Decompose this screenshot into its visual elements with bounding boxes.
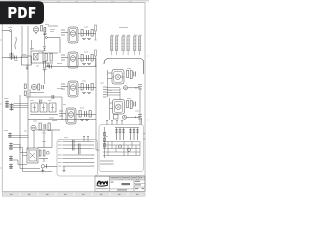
wire bias rail 2 (103, 144, 140, 146)
title block logo cell (109, 176, 111, 191)
power tube V6 (110, 35, 118, 55)
wire right bus (139, 88, 141, 126)
filter cap C24 (136, 129, 138, 140)
resistor R5 (81, 30, 83, 37)
label bottom row text (117, 189, 127, 190)
ground GND7 (41, 168, 44, 173)
wire heater rail 2 (63, 144, 95, 146)
resistor R12 (89, 111, 91, 118)
transistor Q2 (127, 148, 130, 151)
title block top row (110, 179, 146, 181)
label rail names left (58, 141, 62, 166)
wire loop net 1 (20, 145, 40, 169)
title block bottom row (110, 188, 135, 190)
capacitor C9 (134, 72, 136, 77)
wire bus x28 (27, 26, 29, 150)
capacitor C17 (78, 144, 80, 155)
input jack J1 (10, 30, 12, 32)
connector P5 pins (103, 87, 120, 97)
node N2 (45, 37, 47, 39)
triode V4 (70, 85, 76, 91)
mains jack J3 (41, 165, 44, 168)
triode V1b node (43, 70, 47, 73)
resistor R11 (79, 111, 81, 118)
resistor R1 (41, 26, 43, 32)
left margin zone ticks (0, 40, 1, 168)
wire bias rail 3 (103, 148, 140, 150)
ground GND3 (82, 64, 91, 65)
filter cap C22 (129, 129, 131, 140)
wire stage drops (34, 130, 52, 148)
resistor R2 (45, 54, 47, 62)
tube shield V4 (68, 81, 78, 97)
power tube V7 (122, 35, 130, 55)
wire stage net (26, 89, 62, 97)
label output tubes (119, 27, 128, 29)
wire R4 drop (44, 73, 46, 85)
pilot lamp DS1 (123, 115, 127, 119)
label FX (57, 88, 63, 90)
label smudges value texts (4, 25, 139, 138)
resistor R19 (39, 123, 41, 130)
resistor R17b (24, 91, 26, 96)
triode V2 (70, 31, 76, 37)
connector P2 pins (61, 55, 65, 60)
junction box B1 (57, 140, 98, 177)
wire V2 plate (78, 33, 96, 35)
speaker jack J2 (123, 86, 127, 90)
label right cells (135, 181, 144, 189)
fuse F1 (138, 115, 142, 120)
bottom ruler strip (2, 193, 145, 197)
wire tone net (30, 114, 58, 116)
wire V5 plate (76, 114, 96, 116)
wire P3 to V4 (65, 86, 68, 88)
dropper chain R24 (104, 127, 106, 158)
capacitor C8 (85, 111, 87, 117)
resistor R27 (103, 144, 105, 148)
label field texts top row (110, 177, 144, 178)
capacitor C6 (87, 55, 89, 61)
ground GND5 (80, 120, 89, 121)
wire heater rail 7 (63, 165, 95, 167)
label bias note 1 (100, 160, 114, 162)
triode V5 (68, 112, 74, 118)
wire bias rail 5 (103, 155, 140, 157)
wire bus x20 (19, 95, 21, 150)
wire P2 to V3 (65, 57, 68, 59)
wire V4 plate (78, 87, 96, 89)
label net name (57, 63, 62, 65)
capacitor C5 (87, 30, 89, 36)
wire PT secondary stubs (106, 121, 123, 125)
capacitor C4 (50, 65, 52, 69)
resistor R15b (130, 71, 132, 79)
wire V3 plate (78, 58, 96, 60)
power tube V8 (134, 35, 142, 55)
pot VR3 (40, 103, 47, 112)
tube shield V10 (113, 100, 125, 115)
wire heater rail 5 (63, 158, 95, 160)
capacitor C18 (40, 100, 42, 104)
title block frame (95, 176, 145, 191)
resistor R8 (91, 55, 93, 62)
connector P8 pins (9, 156, 13, 170)
wire relay stubs (20, 153, 27, 156)
resistor R15 (127, 71, 129, 78)
triode V12 (31, 125, 36, 130)
wire P4 to V5 (63, 113, 66, 115)
triode V9 (115, 74, 120, 79)
capacitor C1 (15, 56, 17, 60)
wire bias top net (38, 144, 50, 162)
switch box S1 (31, 51, 43, 63)
capacitor C7 (87, 84, 89, 90)
tube shield V5 (66, 108, 76, 124)
resistor R18 (38, 84, 40, 90)
ground GND8 (30, 48, 33, 49)
wire P1 to V2 (65, 32, 68, 34)
wire P7 harness (12, 136, 28, 148)
ground GND2 (82, 39, 91, 40)
resistor R21 (39, 150, 41, 156)
lamp DS2 (46, 151, 49, 154)
node dot N3 (135, 87, 136, 89)
wire channel bus (21, 26, 23, 56)
bias box B2 (99, 125, 144, 172)
tube shield V9 (112, 70, 124, 85)
wire input from border (2, 30, 9, 32)
wire bias verticals (108, 142, 140, 156)
label logo address (96, 188, 109, 189)
wire heater rail 6 (63, 161, 95, 163)
capacitor C2 (44, 28, 47, 35)
wire stub K1 (26, 65, 28, 70)
title block top row dividers (120, 176, 139, 180)
wire cathode drop (32, 33, 45, 48)
wire bias rail 1 (103, 141, 140, 143)
label size cell (111, 182, 114, 183)
resistor R3 (50, 54, 52, 62)
right margin zone ticks (147, 56, 148, 120)
relay K2 box (27, 148, 38, 163)
triode V11 (31, 84, 36, 89)
resistor R10 (91, 84, 93, 91)
wire heater rail 1 (63, 140, 95, 142)
capacitor C12 (52, 95, 54, 99)
connector P4 pins (59, 111, 63, 116)
tube shield V3 (68, 52, 78, 68)
ground GND6 (63, 166, 66, 172)
wire PI left bus (108, 70, 113, 97)
wire P6 harness (14, 104, 29, 108)
sheet border frame (2, 3, 145, 192)
wire return net (28, 119, 96, 121)
wire J2 net (128, 87, 140, 89)
resistor R22 (43, 150, 45, 156)
pot VR4 (49, 103, 56, 112)
wire HT right branch (142, 118, 146, 139)
relay box K1 (22, 56, 32, 65)
filter cap C19 (115, 129, 117, 140)
triode V10 (116, 104, 121, 109)
plate load resistor R13 (94, 25, 96, 40)
resistor R16b (130, 101, 132, 109)
capacitor C13 (44, 124, 46, 129)
wire J3 to heater box (45, 165, 58, 167)
wire mains net (127, 116, 141, 118)
wire heater rail 3 (63, 148, 95, 150)
wire stage2 net (36, 129, 60, 131)
wire heater rail 4 (63, 154, 95, 156)
wire HT bus bracket (104, 59, 144, 75)
wire B+ bus (95, 58, 97, 140)
wire bias rail 4 (103, 151, 140, 153)
page top edge band (0, 0, 149, 1)
label bias note 2 (100, 163, 114, 165)
tube shield V2 (68, 27, 78, 43)
label drive (52, 120, 57, 122)
plate load resistor R14 (94, 50, 96, 66)
wire coupling net (47, 38, 60, 54)
title block right column (133, 180, 135, 191)
filter cap C21 (122, 129, 124, 140)
label jack (8, 27, 12, 29)
wire mid net (46, 66, 96, 68)
wire loop net 3 (13, 160, 27, 165)
wire cathode net (43, 62, 53, 64)
node dot N4 (135, 116, 136, 118)
triode V3 (70, 56, 76, 62)
connector P6 pins (5, 101, 28, 111)
wire node A (2, 57, 28, 59)
transistor Q1 (118, 145, 121, 148)
resistor R20 (48, 123, 50, 131)
label bias (42, 141, 46, 143)
wire P5 harness (107, 88, 121, 96)
connector P3 pins (61, 84, 65, 89)
ground GND1 (47, 63, 50, 68)
wire cap top bus (115, 128, 139, 130)
label return (49, 117, 54, 119)
capacitor C11 (42, 85, 44, 89)
resistor R25 (103, 133, 105, 137)
resistor R7 (81, 55, 83, 62)
capacitor C3 (43, 47, 46, 51)
capacitor C10 (134, 102, 136, 107)
standby switch S3 (114, 115, 119, 120)
resistor R16 (127, 101, 129, 108)
PDF badge (0, 1, 44, 24)
title block approvals line (95, 174, 145, 177)
logo Dudley script (97, 181, 108, 187)
wire send bus (61, 97, 63, 120)
wire PS to stages (96, 140, 99, 150)
pot VR2 (31, 103, 38, 112)
label INPUT (rotated) (15, 37, 16, 49)
filter cap C20 (119, 129, 121, 140)
filter cap C23 (133, 129, 135, 140)
resistor R26 (103, 138, 105, 142)
resistor R9 (81, 84, 83, 91)
label title text (122, 183, 131, 185)
impedance switch S2 (138, 85, 142, 90)
wire heater stubs up (83, 136, 89, 141)
label rail names right (91, 141, 95, 166)
connector P7 pins (8, 133, 28, 151)
ground GND4 (82, 93, 91, 94)
capacitor C16 (72, 140, 74, 151)
wire jack down (11, 32, 13, 58)
wire grid net (38, 52, 58, 54)
resistor R6 (91, 30, 93, 37)
title block right rows (134, 183, 145, 187)
wire loop net 2 (23, 148, 53, 172)
triode V1a (33, 27, 39, 35)
wire top net (48, 25, 58, 27)
wire P5 drop (119, 88, 121, 100)
connector P1 pins (61, 30, 65, 35)
wire V10 left bus (110, 98, 113, 120)
resistor R4 (44, 62, 46, 69)
potentiometer VR1 (9, 52, 14, 60)
resistor R17 (24, 84, 26, 89)
capacitor C15 (46, 164, 48, 168)
top margin zone ticks (57, 1, 132, 3)
